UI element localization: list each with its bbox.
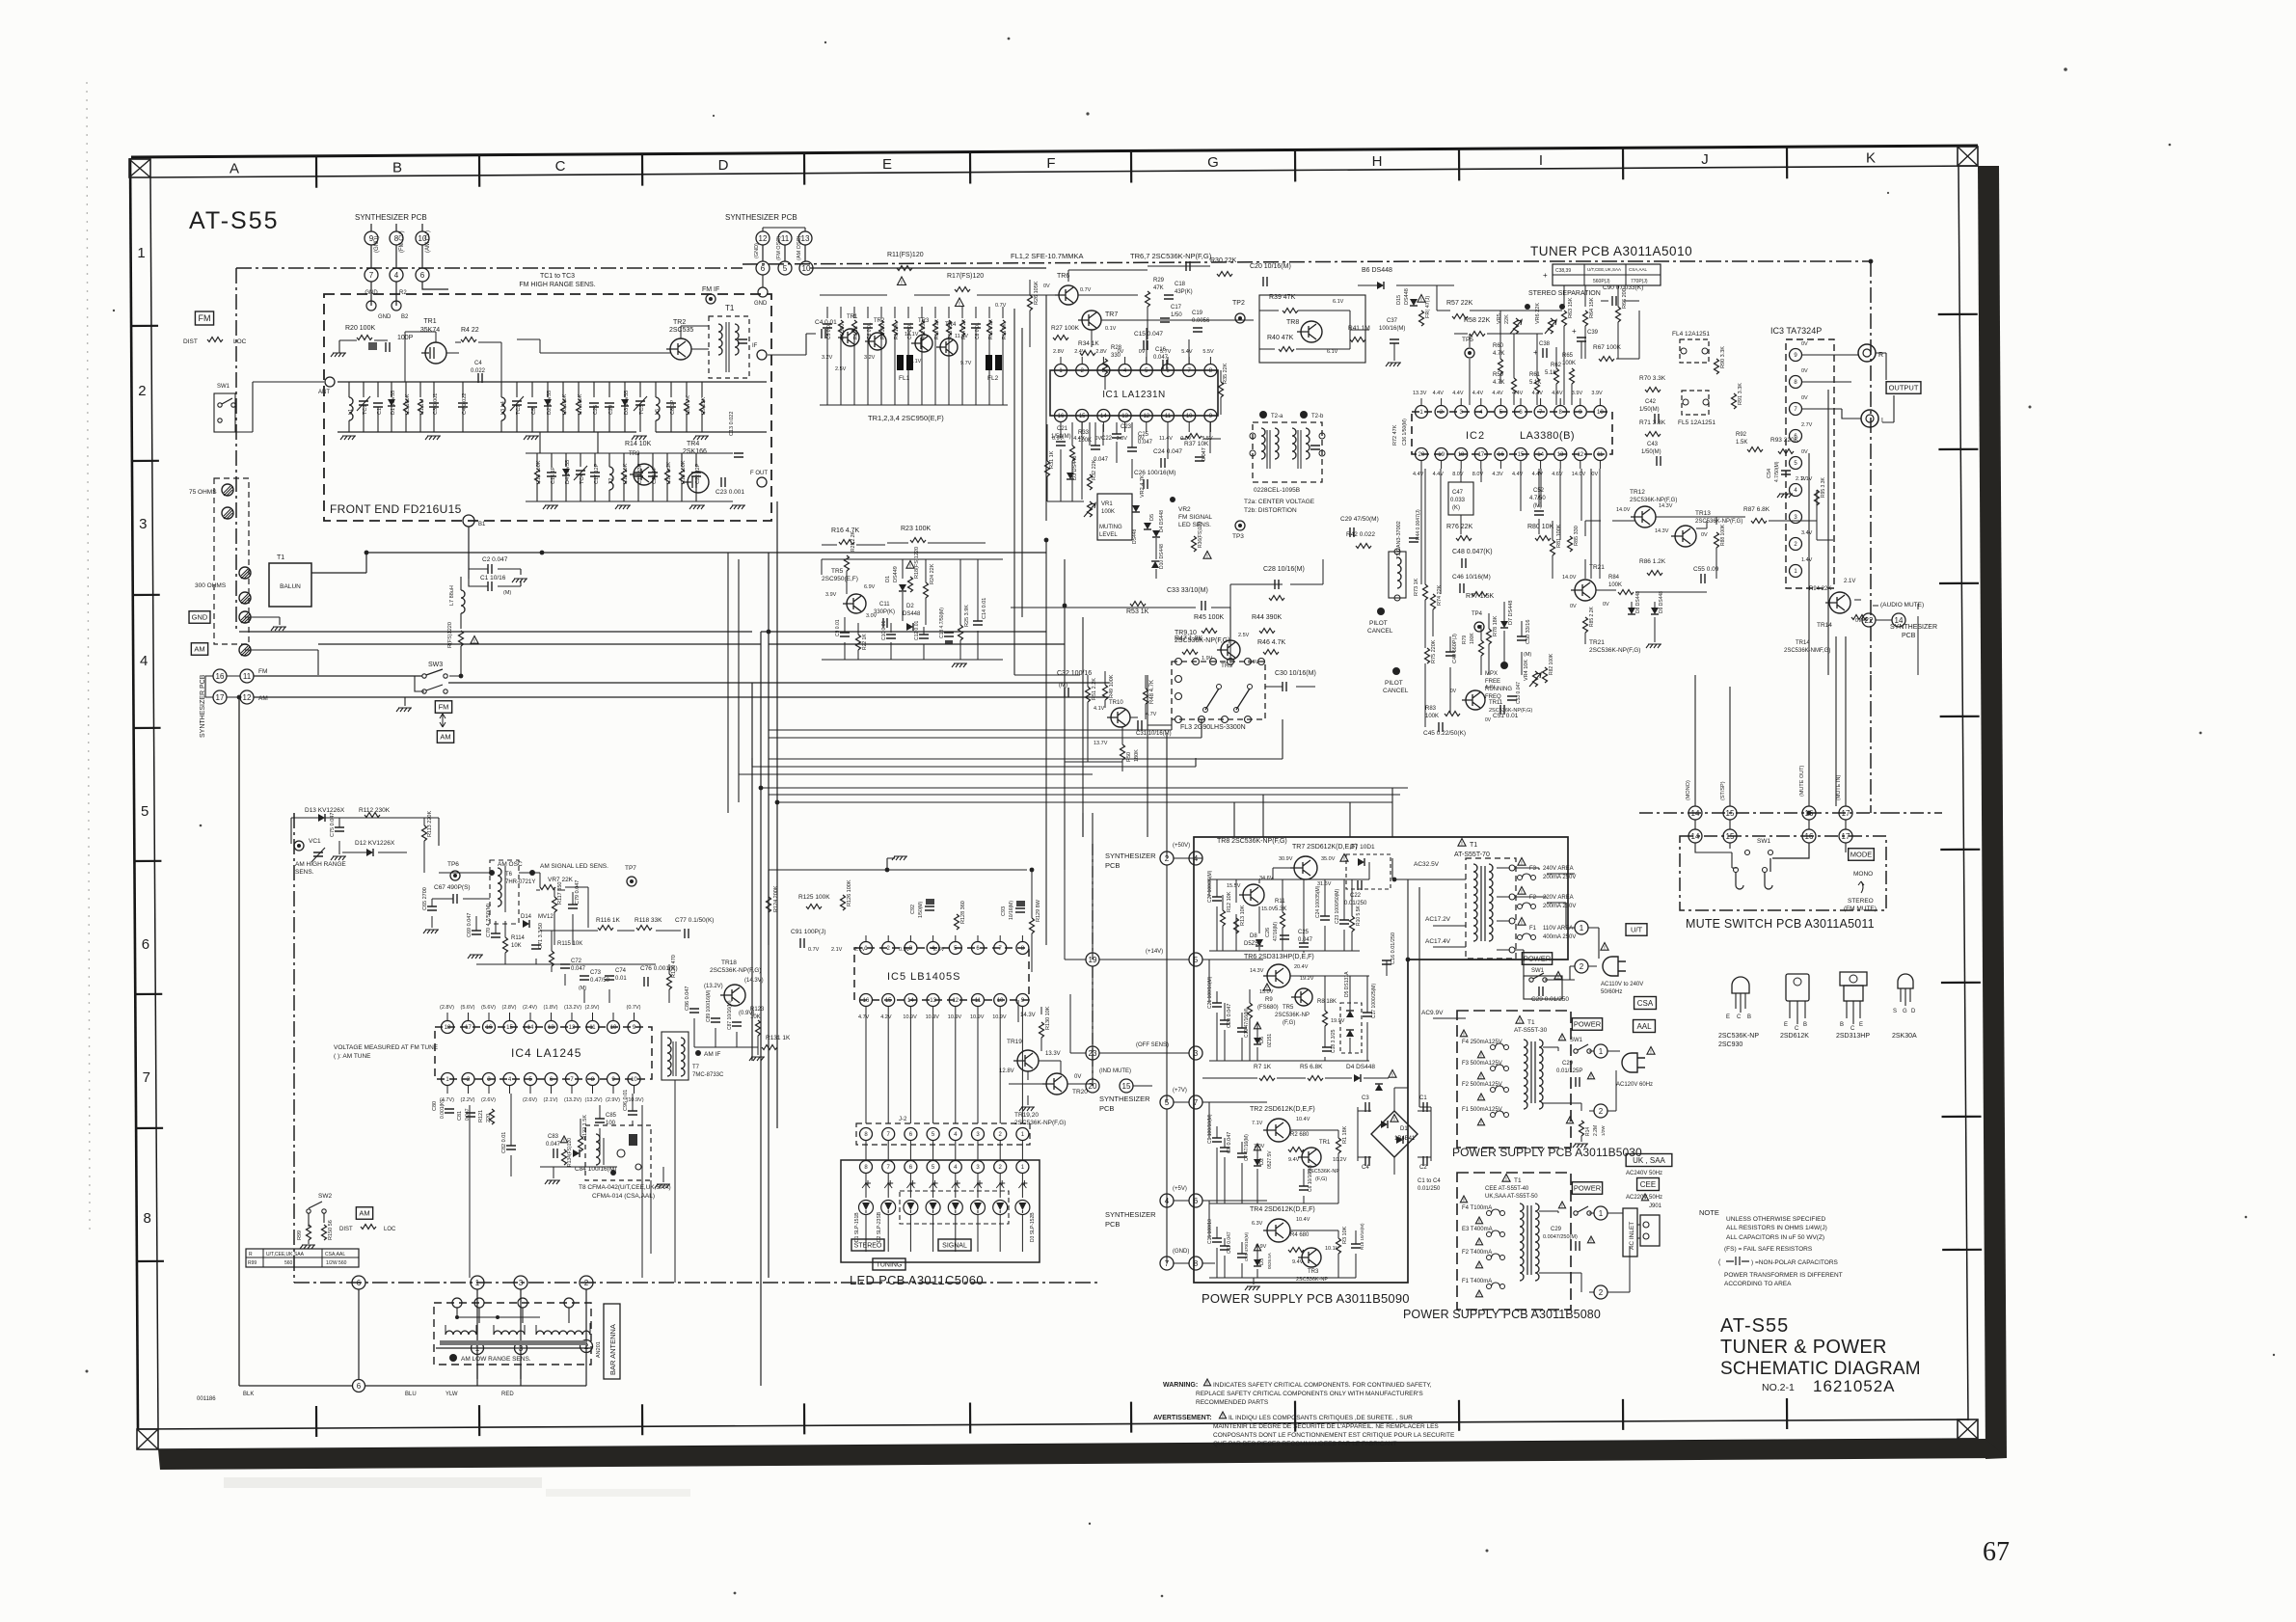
svg-text:2.8V: 2.8V — [1095, 349, 1107, 355]
svg-text:0.047: 0.047 — [1138, 440, 1153, 446]
svg-text:PILOT: PILOT — [1369, 620, 1388, 627]
svg-text:(AM CV): (AM CV) — [425, 230, 431, 253]
connector bracket — [763, 228, 805, 231]
package drawing 2SD612K — [1786, 974, 1809, 1001]
svg-text:3: 3 — [139, 516, 147, 532]
svg-text:2: 2 — [1599, 1107, 1604, 1116]
svg-text:10.9V: 10.9V — [970, 1014, 985, 1020]
svg-text:R72 47K: R72 47K — [1392, 424, 1398, 446]
front end oscillator components (R13 C16 D4 TC4 C17 T2 R15 C19 C20 R17 R18 C22) — [536, 453, 538, 467]
svg-text:0.7V: 0.7V — [1080, 287, 1092, 293]
wires pins upper-lower — [1695, 820, 1846, 829]
svg-text:D2: D2 — [906, 604, 914, 609]
svg-text:3.4V: 3.4V — [1801, 530, 1813, 536]
svg-text:2SC950(E,F): 2SC950(E,F) — [822, 576, 858, 582]
svg-text:C89 100/16(M): C89 100/16(M) — [706, 989, 712, 1022]
IC1 top pins with voltages — [1055, 365, 1067, 377]
svg-text:1/2W: 1/2W — [1601, 1125, 1606, 1136]
svg-text:C30 10/16(M): C30 10/16(M) — [1275, 670, 1316, 677]
svg-text:TR7: TR7 — [1105, 311, 1118, 318]
right edge dark scan band — [1978, 166, 2007, 1459]
svg-text:R120 470: R120 470 — [671, 955, 677, 978]
connector pins 9 8 10 — [365, 231, 378, 245]
svg-text:2SC536K-NP(F,G): 2SC536K-NP(F,G) — [1175, 637, 1230, 644]
wire T8 to ground — [655, 1184, 670, 1188]
package drawing 2SK30A — [1898, 974, 1913, 988]
svg-text:12: 12 — [1143, 414, 1149, 419]
pins 4 6 +5V — [1160, 1194, 1174, 1207]
svg-text:R71 3.3K: R71 3.3K — [1639, 419, 1666, 426]
svg-text:TR9,10: TR9,10 — [1175, 630, 1197, 636]
svg-text:C69 0.047: C69 0.047 — [467, 913, 473, 937]
svg-text:R4 22: R4 22 — [461, 327, 479, 334]
svg-text:5: 5 — [141, 803, 149, 820]
row ticks left — [130, 326, 164, 1261]
svg-text:AC17.2V: AC17.2V — [1425, 916, 1451, 923]
svg-text:AAL: AAL — [1636, 1022, 1652, 1031]
upper IC4 rail wires — [439, 873, 681, 931]
svg-text:R9 22K: R9 22K — [701, 396, 707, 415]
vertical bus x1190 area — [1148, 675, 1167, 1263]
svg-text:13: 13 — [548, 1025, 554, 1031]
FM antenna terminals — [222, 484, 233, 496]
svg-text:K: K — [1866, 150, 1876, 167]
svg-text:(ST/SP): (ST/SP) — [1720, 781, 1726, 800]
svg-text:5.7V: 5.7V — [1160, 349, 1172, 355]
svg-text:MPX: MPX — [1485, 671, 1498, 677]
svg-text:SW3: SW3 — [428, 662, 443, 668]
svg-text:T6: T6 — [505, 872, 513, 878]
svg-text:AM: AM — [194, 645, 204, 654]
IC5 bottom pins — [860, 994, 873, 1007]
svg-text:C15 0.047: C15 0.047 — [1134, 331, 1163, 338]
svg-text:560: 560 — [284, 1260, 293, 1266]
svg-text:TP6: TP6 — [447, 861, 459, 868]
svg-text:4.3V: 4.3V — [1492, 472, 1503, 477]
svg-text:R99: R99 — [297, 1230, 303, 1240]
svg-text:10: 10 — [1186, 414, 1193, 419]
AM boxed label — [191, 643, 207, 656]
pins 2 and 4 +50V — [1160, 852, 1174, 865]
B5080 transformer — [1520, 1203, 1524, 1281]
bar antenna bottom wires to connector row — [453, 1354, 586, 1386]
svg-text:AC240V 50Hz: AC240V 50Hz — [1626, 1171, 1662, 1176]
svg-text:R113 220K: R113 220K — [427, 811, 433, 837]
wires muting cluster — [1047, 422, 1156, 579]
svg-text:47/16(M): 47/16(M) — [1273, 922, 1279, 941]
svg-text:TR6: TR6 — [1057, 273, 1069, 280]
svg-text:D1 1SV55: D1 1SV55 — [391, 391, 396, 415]
svg-text:(+7V): (+7V) — [1173, 1088, 1187, 1094]
U/T boxed label — [1626, 924, 1647, 936]
svg-text:C86 0.047: C86 0.047 — [685, 987, 690, 1011]
IC3 pins column — [1790, 349, 1802, 362]
svg-text:R1 1M: R1 1M — [419, 398, 425, 415]
svg-text:F4 T100mA: F4 T100mA — [1462, 1205, 1492, 1211]
svg-text:(MUTE IN): (MUTE IN) — [1836, 775, 1842, 800]
FL5 12A1251 filter — [1682, 391, 1709, 415]
svg-text:1.5K: 1.5K — [1736, 440, 1747, 446]
svg-text:(M): (M) — [503, 590, 511, 596]
svg-text:TR2: TR2 — [673, 319, 686, 326]
svg-text:R93 220K: R93 220K — [1770, 437, 1799, 444]
IC2 top pins with voltages — [1416, 406, 1428, 419]
svg-text:2SC536K-NP(F,G): 2SC536K-NP(F,G) — [1589, 647, 1640, 654]
svg-text:C8 1P: C8 1P — [670, 399, 676, 415]
svg-text:C13 0.022: C13 0.022 — [729, 412, 735, 436]
svg-text:IC5 LB1405S: IC5 LB1405S — [887, 971, 960, 983]
svg-text:T2b: DISTORTION: T2b: DISTORTION — [1244, 507, 1297, 514]
svg-text:(FS) = FAIL SAFE RESISTORS: (FS) = FAIL SAFE RESISTORS — [1724, 1246, 1813, 1253]
T2-a T2-b test dots — [1259, 411, 1267, 419]
BAR ANTENNA vertical boxed label — [604, 1304, 620, 1379]
svg-text:D8: D8 — [1250, 933, 1257, 939]
svg-text:R20 100K: R20 100K — [345, 325, 375, 332]
wire pin17 into box — [1845, 843, 1847, 852]
VR2 FM SIGNAL LED SENS — [1170, 497, 1175, 502]
FM wire SW3 to right bus — [448, 682, 1109, 684]
svg-text:TR3: TR3 — [1308, 1269, 1319, 1275]
svg-text:1: 1 — [137, 245, 145, 261]
svg-text:TC1 to TC3: TC1 to TC3 — [540, 273, 575, 280]
svg-text:IC3 TA7324P: IC3 TA7324P — [1770, 326, 1822, 336]
AC plug U/T — [1603, 957, 1626, 976]
svg-text:GND: GND — [192, 613, 208, 622]
svg-text:TR19,20: TR19,20 — [1014, 1112, 1039, 1119]
svg-text:R78 18K: R78 18K — [1493, 615, 1499, 636]
svg-text:R79: R79 — [1462, 635, 1468, 644]
svg-text:D2 1SV55: D2 1SV55 — [547, 391, 553, 415]
svg-text:(FS680): (FS680) — [1257, 1005, 1279, 1011]
svg-text:R99: R99 — [248, 1260, 257, 1266]
svg-text:INDICATES SAFETY CRITICAL COMP: INDICATES SAFETY CRITICAL COMPONENTS. FO… — [1213, 1382, 1432, 1389]
svg-text:SYNTHESIZER: SYNTHESIZER — [1099, 1095, 1150, 1103]
svg-text:6: 6 — [761, 264, 766, 273]
svg-text:TR4: TR4 — [687, 441, 699, 447]
svg-text:R53 1K: R53 1K — [1126, 608, 1149, 615]
svg-text:R9: R9 — [1265, 997, 1273, 1003]
IC2 bottom pins with voltages — [1416, 448, 1428, 461]
svg-text:8: 8 — [1194, 1259, 1199, 1268]
svg-text:1: 1 — [475, 1279, 480, 1287]
svg-text:AT-S55: AT-S55 — [1720, 1315, 1789, 1337]
bus y278 to IF strip — [810, 267, 1046, 269]
svg-text:2: 2 — [1580, 962, 1584, 971]
svg-text:R130 10K: R130 10K — [1045, 1006, 1051, 1030]
svg-text:TR6,7 2SC536K-NP(F,G): TR6,7 2SC536K-NP(F,G) — [1130, 252, 1212, 260]
FM boxed label — [195, 311, 213, 325]
svg-text:(10.9V): (10.9V) — [627, 1097, 644, 1103]
svg-text:NO.2-1: NO.2-1 — [1762, 1382, 1795, 1393]
svg-text:B: B — [1803, 1022, 1807, 1028]
svg-text:R27 100K: R27 100K — [1051, 325, 1080, 332]
svg-text:S: S — [1893, 1009, 1897, 1014]
svg-text:SYNTHESIZER: SYNTHESIZER — [1890, 624, 1937, 631]
svg-text:20: 20 — [1418, 452, 1425, 458]
balun to front-end feed bus — [311, 553, 1046, 573]
svg-text:REPLACE SAFETY CRITICAL COMPON: REPLACE SAFETY CRITICAL COMPONENTS ONLY … — [1196, 1391, 1423, 1397]
svg-text:R22 1K: R22 1K — [862, 634, 868, 650]
svg-text:15.0V: 15.0V — [1261, 906, 1276, 912]
front end lower cluster rails — [526, 432, 733, 501]
svg-text:F1: F1 — [1529, 926, 1537, 932]
svg-text:(FM CV): (FM CV) — [399, 230, 405, 253]
svg-text:T2-b: T2-b — [1311, 414, 1324, 419]
power supply B5030 enclosure — [1457, 1011, 1571, 1148]
svg-text:C22: C22 — [1101, 436, 1113, 442]
svg-text:GND: GND — [365, 290, 378, 296]
svg-text:10.4V: 10.4V — [1296, 1217, 1310, 1223]
svg-text:D3 SLP-152B: D3 SLP-152B — [1030, 1212, 1036, 1242]
svg-text:4.4V: 4.4V — [1492, 391, 1503, 396]
svg-text:1: 1 — [1580, 924, 1584, 933]
svg-text:TUNING: TUNING — [877, 1262, 903, 1269]
svg-text:C25: C25 — [593, 405, 599, 415]
svg-text:LA3380(B): LA3380(B) — [1520, 430, 1575, 442]
svg-text:R81 100K: R81 100K — [1556, 524, 1562, 548]
svg-text:6.1V: 6.1V — [1327, 349, 1338, 355]
power supply B5090 enclosure — [1194, 837, 1568, 1283]
svg-text:AM HIGH RANGE: AM HIGH RANGE — [295, 861, 346, 868]
svg-text:C37: C37 — [1387, 318, 1398, 324]
svg-text:13.3V: 13.3V — [1413, 391, 1427, 396]
AAL boxed label — [1634, 1020, 1656, 1033]
svg-text:C80: C80 — [432, 1101, 438, 1111]
svg-text:R58 22K: R58 22K — [1464, 317, 1491, 324]
svg-text:R18(FS)1220: R18(FS)1220 — [914, 547, 920, 579]
svg-text:R85 330: R85 330 — [1574, 526, 1580, 546]
svg-text:4: 4 — [394, 271, 399, 280]
stereo area connecting wires — [1585, 490, 1878, 644]
svg-text:10.9V: 10.9V — [903, 1014, 917, 1020]
svg-text:R83: R83 — [1425, 706, 1437, 712]
FL3 left pins column — [1175, 676, 1182, 683]
svg-text:16: 16 — [1498, 452, 1504, 458]
vertical wires x1896 — [1828, 390, 1836, 806]
svg-text:E: E — [882, 156, 892, 173]
svg-text:0.047: 0.047 — [1202, 447, 1207, 461]
svg-text:R63 15K: R63 15K — [1568, 297, 1574, 318]
T8 ceramic filter dashed box — [585, 1125, 651, 1180]
transformer T1 AT-S55T-70 label — [1458, 839, 1466, 847]
svg-text:FL4 12A1251: FL4 12A1251 — [1672, 331, 1710, 338]
svg-text:TR1: TR1 — [847, 314, 858, 320]
svg-text:2.8V: 2.8V — [1053, 349, 1065, 355]
svg-text:0Z151: 0Z151 — [1267, 1034, 1273, 1047]
svg-text:15: 15 — [1518, 452, 1525, 458]
svg-text:C51 0.01: C51 0.01 — [1493, 713, 1519, 719]
svg-text:AM: AM — [440, 733, 450, 742]
LED zigzag marks — [862, 1180, 871, 1188]
svg-text:0V: 0V — [1450, 689, 1457, 694]
svg-text:0228CEL-1095B: 0228CEL-1095B — [1254, 487, 1300, 494]
svg-text:R90 3.3K: R90 3.3K — [1720, 346, 1726, 368]
IC5 LB1405S dashed body — [854, 948, 1029, 1000]
svg-text:C12 0.01: C12 0.01 — [914, 620, 920, 640]
svg-text:13.3V: 13.3V — [1045, 1051, 1061, 1057]
svg-text:R67 100K: R67 100K — [1593, 344, 1622, 351]
svg-text:3.8V: 3.8V — [1117, 436, 1128, 442]
svg-text:POWER TRANSFORMER IS DIFFERENT: POWER TRANSFORMER IS DIFFERENT — [1724, 1272, 1843, 1279]
IF bias components row (R6 R7 C6 R8 R9 C7 R12 R13 R14 R10 C8 R16 R15) — [826, 307, 828, 318]
svg-text:11: 11 — [1597, 452, 1604, 458]
T1 CEE AT-S55T-40 label — [1502, 1175, 1510, 1182]
transistor TR8 reg — [1243, 884, 1264, 906]
svg-text:C47: C47 — [1452, 490, 1464, 496]
ground at C1 — [512, 579, 527, 582]
J2 pins — [860, 1128, 873, 1141]
svg-text:R3 10K: R3 10K — [1342, 1226, 1348, 1244]
fuse F4 250mA125V — [1460, 1030, 1467, 1037]
transformer T1 primary coil — [1473, 864, 1477, 941]
svg-text:0V: 0V — [1801, 395, 1808, 401]
svg-text:4.4V: 4.4V — [1433, 391, 1445, 396]
svg-text:C29: C29 — [1551, 1227, 1562, 1232]
synth boundary dash-dot x1133 — [1092, 844, 1094, 1079]
fuse F2 220V AREA — [1518, 887, 1526, 895]
svg-text:3.2V: 3.2V — [864, 355, 876, 361]
svg-text:(2.2V): (2.2V) — [461, 1097, 475, 1103]
svg-text:0V: 0V — [1043, 284, 1050, 289]
svg-text:F2 T400mA: F2 T400mA — [1462, 1250, 1492, 1256]
svg-text:3: 3 — [519, 1279, 524, 1287]
svg-text:0.47/50: 0.47/50 — [590, 978, 610, 984]
svg-text:7: 7 — [143, 1069, 150, 1086]
svg-text:T7: T7 — [692, 1065, 700, 1070]
TUNING boxed label — [873, 1258, 905, 1270]
svg-text:C1: C1 — [377, 408, 383, 415]
T2 discriminator dashed box — [1253, 422, 1322, 482]
IC4 bottom drops to bus — [470, 1080, 675, 1283]
svg-text:TP5: TP5 — [1462, 337, 1473, 343]
svg-text:YLW: YLW — [446, 1392, 458, 1397]
SW3 second pole — [422, 689, 426, 693]
svg-text:6: 6 — [420, 271, 425, 280]
fuse F3 240V AREA — [1518, 858, 1526, 866]
svg-text:R50: R50 — [1126, 752, 1132, 762]
svg-text:100/16(M): 100/16(M) — [1379, 326, 1405, 332]
B2 GND pins on front end top edge — [392, 301, 401, 311]
T1 AT-S55T-30 label — [1516, 1016, 1524, 1024]
svg-text:4.7/50(M): 4.7/50(M) — [1774, 461, 1780, 482]
ground B5030 — [1573, 1144, 1588, 1148]
connector 6 wire down — [353, 1380, 365, 1392]
svg-text:(M): (M) — [1059, 683, 1067, 689]
svg-text:(2.8V): (2.8V) — [502, 1005, 517, 1011]
svg-text:8: 8 — [144, 1210, 151, 1227]
svg-text:POWER SUPPLY PCB A3011B5080: POWER SUPPLY PCB A3011B5080 — [1403, 1308, 1601, 1321]
power supply B5080 enclosure — [1457, 1173, 1571, 1310]
svg-text:(GND): (GND) — [1173, 1249, 1189, 1255]
svg-text:AVERTISSEMENT:: AVERTISSEMENT: — [1153, 1415, 1212, 1421]
svg-text:15: 15 — [1726, 832, 1735, 841]
svg-text:13: 13 — [1557, 452, 1564, 458]
tuner PCB boundary dash-dot top — [743, 261, 1871, 264]
fuse F4 T100mA — [1460, 1196, 1467, 1203]
svg-text:100K: 100K — [1101, 509, 1115, 515]
svg-text:R32 22K: R32 22K — [1092, 459, 1097, 480]
svg-text:TC4: TC4 — [580, 474, 585, 484]
horizontal bus y668 — [318, 643, 1065, 645]
svg-text:R129 8W: R129 8W — [1036, 899, 1041, 922]
svg-text:12: 12 — [1577, 452, 1583, 458]
svg-text:D8 DS448: D8 DS448 — [1635, 591, 1641, 613]
AC plug B5030 — [1622, 1053, 1645, 1072]
svg-text:5: 5 — [783, 264, 788, 273]
svg-text:AC17.4V: AC17.4V — [1425, 938, 1451, 945]
svg-text:) =NON-POLAR CAPACITORS: ) =NON-POLAR CAPACITORS — [1751, 1259, 1839, 1266]
left boundary dash-dot vertical — [235, 268, 237, 632]
B5090 mid wires — [1202, 960, 1387, 1061]
T2 coils — [1261, 428, 1265, 459]
bottom dash-dot PCB boundary bus — [294, 1282, 1099, 1284]
svg-text:35.0V: 35.0V — [1321, 856, 1336, 862]
svg-text:C93: C93 — [1001, 906, 1007, 916]
mute box pins row (lower) — [1688, 829, 1702, 843]
svg-text:0.047: 0.047 — [546, 1142, 561, 1148]
svg-text:C17: C17 — [1171, 305, 1182, 311]
ferrite core bar — [440, 1340, 586, 1345]
bar antenna dashed enclosure — [434, 1303, 591, 1365]
ground below IC4 — [545, 1180, 560, 1184]
svg-text:2.7V: 2.7V — [1801, 422, 1813, 428]
svg-text:OUTPUT: OUTPUT — [1889, 384, 1919, 392]
svg-text:R66 200: R66 200 — [1622, 288, 1628, 309]
svg-text:2.1V: 2.1V — [1844, 579, 1855, 584]
svg-text:D: D — [718, 157, 729, 174]
svg-text:2SK166: 2SK166 — [683, 448, 707, 455]
svg-text:AT-S55T-30: AT-S55T-30 — [1514, 1027, 1548, 1034]
svg-text:R15 10K: R15 10K — [623, 463, 629, 484]
svg-text:R35 22K: R35 22K — [1223, 363, 1229, 384]
svg-text:TR1: TR1 — [423, 318, 436, 325]
svg-text:0.033: 0.033 — [1450, 498, 1466, 503]
svg-text:16: 16 — [216, 672, 225, 681]
transformer T1 secondary terminals — [1497, 868, 1510, 950]
svg-text:2SD313HP: 2SD313HP — [1836, 1033, 1870, 1040]
svg-text:R7 100K: R7 100K — [578, 393, 583, 415]
svg-text:R7 1K: R7 1K — [1254, 1064, 1272, 1070]
svg-text:TR14: TR14 — [1817, 622, 1832, 629]
svg-text:20.4V: 20.4V — [1294, 964, 1309, 970]
svg-text:0.0056: 0.0056 — [1192, 318, 1210, 324]
svg-text:4.4V: 4.4V — [1413, 472, 1424, 477]
test point TP3 — [1235, 521, 1245, 530]
package drawing 2SD313HP — [1840, 972, 1867, 986]
svg-text:15: 15 — [1726, 809, 1735, 818]
svg-text:C1 to C4: C1 to C4 — [1418, 1178, 1441, 1184]
svg-text:U/T,CEE,UK,SAA: U/T,CEE,UK,SAA — [1587, 267, 1621, 272]
svg-text:C17 12P: C17 12P — [594, 463, 600, 484]
svg-text:C67 490P(S): C67 490P(S) — [434, 884, 471, 891]
FM wire pin11 to SW3 — [254, 675, 422, 677]
FL3 switch levers — [1205, 689, 1250, 710]
svg-text:J901: J901 — [1649, 1203, 1662, 1209]
corner register mark bottom-left — [137, 1429, 158, 1449]
svg-text:5.4V: 5.4V — [1181, 349, 1193, 355]
svg-text:C24 100/35(M): C24 100/35(M) — [1315, 885, 1321, 918]
svg-text:B6 DS448: B6 DS448 — [1362, 267, 1392, 274]
svg-text:TR12: TR12 — [1630, 489, 1645, 496]
svg-text:L7 88uH: L7 88uH — [449, 585, 455, 606]
svg-text:16: 16 — [863, 998, 870, 1004]
B5090 3V wires — [1202, 1201, 1356, 1278]
vertical bus left of LED pcb — [752, 501, 777, 1386]
svg-text:(2.9V): (2.9V) — [606, 1097, 620, 1103]
svg-text:6.1V: 6.1V — [1333, 299, 1344, 305]
svg-text:10.9V: 10.9V — [992, 1014, 1007, 1020]
STEREO boxed label — [851, 1239, 884, 1251]
